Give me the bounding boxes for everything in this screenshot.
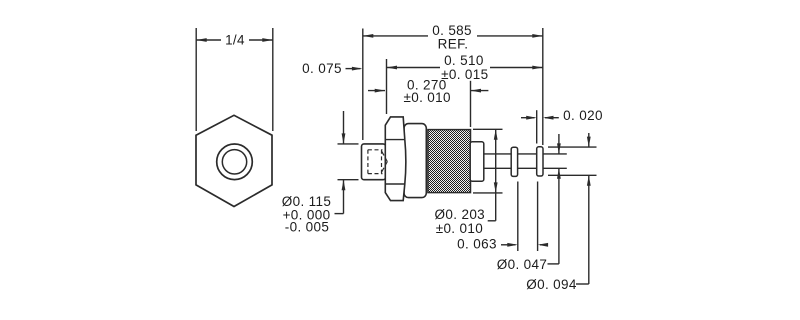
dimension Ø0.094 xyxy=(548,133,597,284)
dimension 1/4 across flats xyxy=(196,28,273,131)
collar flange xyxy=(404,124,426,198)
svg-text:±0. 010: ±0. 010 xyxy=(403,90,450,105)
dimension Ø0.115 xyxy=(335,111,359,214)
svg-text:0. 063: 0. 063 xyxy=(457,236,497,251)
svg-text:±0. 015: ±0. 015 xyxy=(441,67,488,82)
svg-text:0. 020: 0. 020 xyxy=(563,108,603,123)
hex nut side view xyxy=(385,117,406,201)
washer disc 2 xyxy=(537,147,543,176)
contact pin xyxy=(484,153,567,155)
svg-text:-0. 005: -0. 005 xyxy=(285,219,329,234)
dimension 0.510 ±0.015 xyxy=(387,59,543,114)
washer disc 1 xyxy=(511,147,517,176)
center hole outer circle xyxy=(217,144,253,180)
hex body front view xyxy=(196,115,272,206)
dimension Ø0.047 xyxy=(548,134,559,264)
hex facet lines xyxy=(385,139,405,141)
dimension Ø0.203 ±0.010 xyxy=(473,129,503,221)
svg-text:0. 075: 0. 075 xyxy=(302,61,342,76)
center hole inner circle xyxy=(222,150,246,174)
svg-text:Ø0. 047: Ø0. 047 xyxy=(497,257,547,272)
dimension 0.270 ±0.010 xyxy=(368,81,488,127)
svg-text:Ø0. 094: Ø0. 094 xyxy=(526,277,577,292)
svg-text:0. 585: 0. 585 xyxy=(432,23,472,38)
hidden hole dashed lines xyxy=(368,150,387,174)
svg-text:1/4: 1/4 xyxy=(225,33,245,48)
dimension 0.063 xyxy=(501,182,548,252)
svg-text:REF.: REF. xyxy=(438,37,469,52)
dimension 0.075 arrow xyxy=(346,68,361,70)
dimension 0.020 xyxy=(521,110,559,143)
threaded stub xyxy=(362,144,386,180)
dimension 0.585 REF xyxy=(363,28,543,145)
svg-text:±0. 010: ±0. 010 xyxy=(436,221,483,236)
knurled section xyxy=(428,130,471,193)
step / shoulder xyxy=(470,142,484,181)
